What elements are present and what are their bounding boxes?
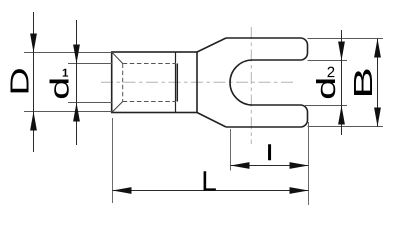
svg-text:d: d (46, 77, 74, 100)
svg-text:L: L (201, 165, 217, 196)
svg-text:B: B (349, 67, 378, 99)
svg-text:D: D (6, 67, 35, 95)
svg-text:1: 1 (62, 68, 69, 80)
svg-text:2: 2 (327, 64, 335, 81)
svg-text:l: l (266, 140, 272, 165)
